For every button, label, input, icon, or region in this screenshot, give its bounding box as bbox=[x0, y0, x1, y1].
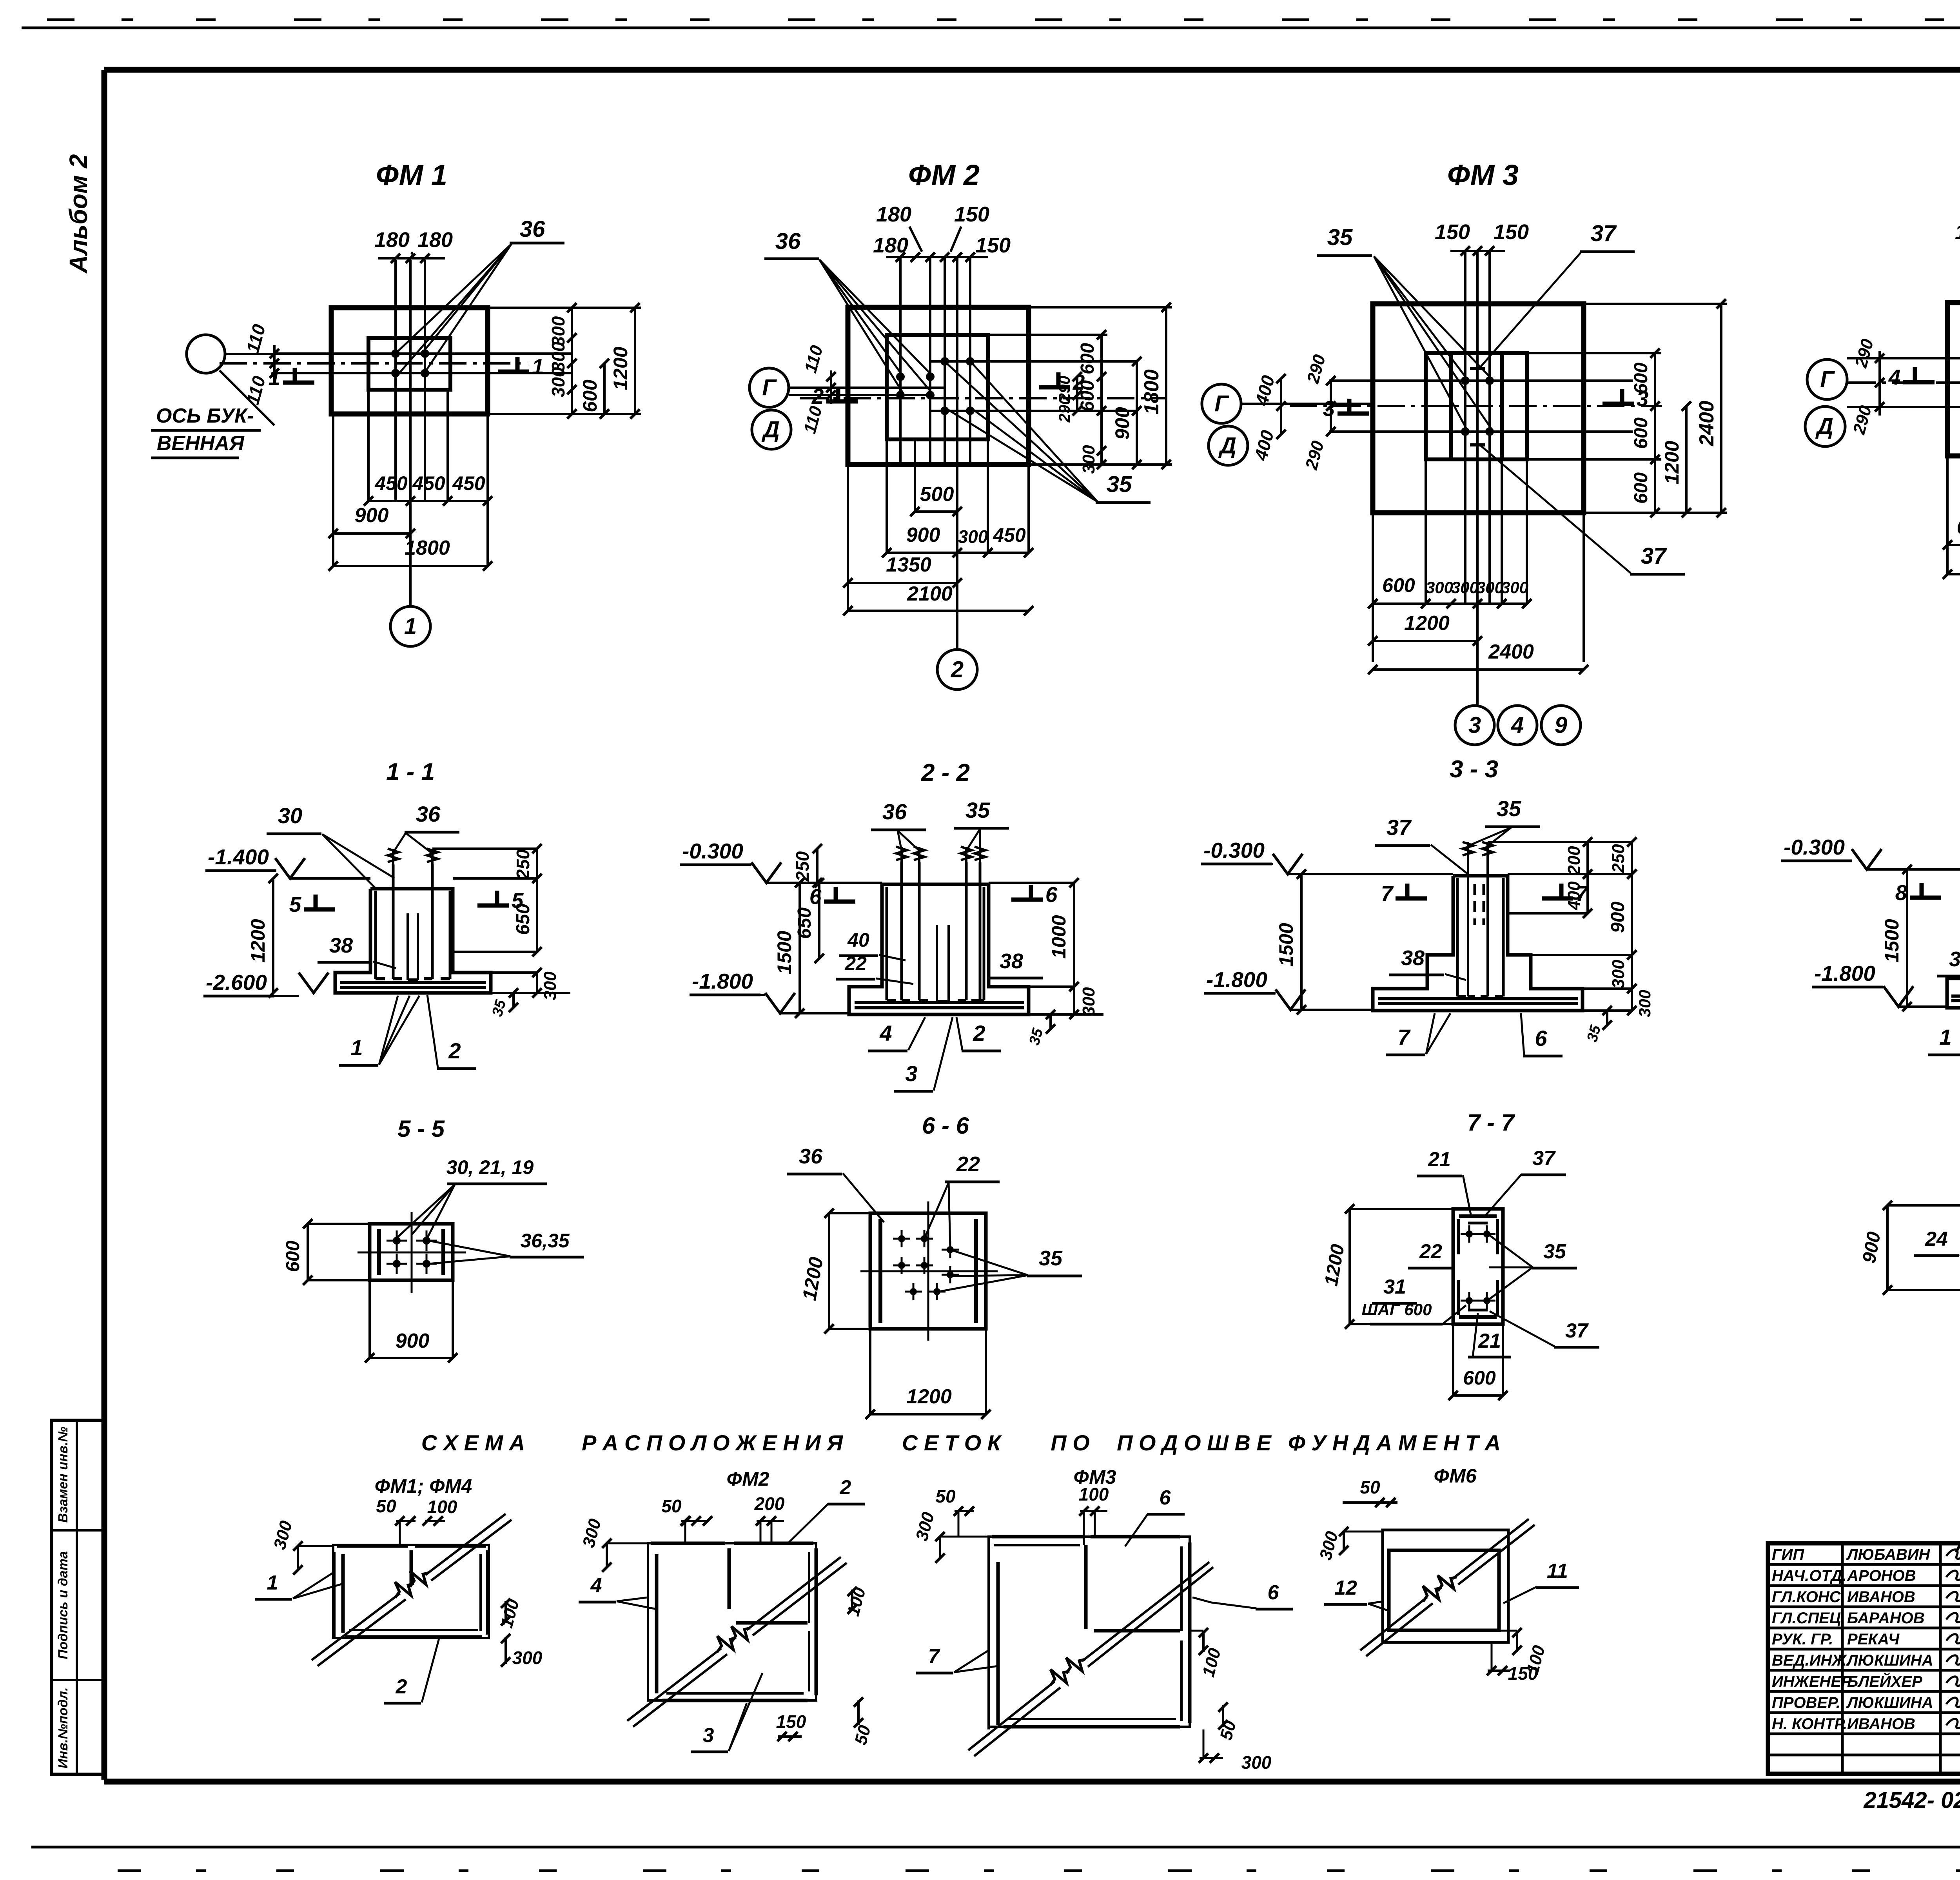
svg-text:5: 5 bbox=[512, 888, 524, 913]
svg-text:31: 31 bbox=[1383, 1276, 1406, 1298]
svg-text:2: 2 bbox=[811, 384, 824, 408]
svg-text:1000: 1000 bbox=[1048, 915, 1070, 958]
svg-text:1 - 1: 1 - 1 bbox=[386, 759, 435, 786]
svg-text:6 - 6: 6 - 6 bbox=[922, 1112, 969, 1139]
svg-text:-0.300: -0.300 bbox=[1784, 835, 1845, 859]
svg-text:300: 300 bbox=[1476, 578, 1504, 597]
svg-text:2400: 2400 bbox=[1695, 401, 1718, 446]
svg-text:37: 37 bbox=[1532, 1147, 1556, 1170]
svg-text:500: 500 bbox=[920, 483, 954, 506]
svg-text:36: 36 bbox=[799, 1145, 823, 1168]
svg-text:22: 22 bbox=[844, 953, 867, 974]
svg-text:30, 21, 19: 30, 21, 19 bbox=[446, 1156, 534, 1178]
svg-text:12: 12 bbox=[1334, 1577, 1357, 1599]
svg-text:2: 2 bbox=[973, 1021, 985, 1045]
svg-text:1: 1 bbox=[404, 614, 417, 639]
svg-text:50: 50 bbox=[661, 1496, 682, 1516]
svg-text:35: 35 bbox=[965, 798, 990, 822]
svg-text:100: 100 bbox=[427, 1497, 457, 1517]
svg-text:-0.300: -0.300 bbox=[682, 839, 743, 863]
svg-text:450: 450 bbox=[374, 472, 408, 494]
svg-text:300: 300 bbox=[1609, 960, 1628, 989]
svg-text:100: 100 bbox=[1079, 1484, 1109, 1504]
svg-text:600: 600 bbox=[1631, 472, 1651, 504]
svg-text:2: 2 bbox=[448, 1038, 461, 1063]
svg-text:РУК. ГР.: РУК. ГР. bbox=[1772, 1631, 1833, 1648]
svg-text:36: 36 bbox=[775, 229, 801, 254]
svg-text:1800: 1800 bbox=[1140, 369, 1163, 415]
svg-text:1350: 1350 bbox=[886, 553, 931, 576]
svg-text:ЛЮКШИНА: ЛЮКШИНА bbox=[1846, 1694, 1933, 1711]
svg-text:ИВАНОВ: ИВАНОВ bbox=[1847, 1715, 1915, 1733]
svg-text:ГЛ.СПЕЦ.: ГЛ.СПЕЦ. bbox=[1772, 1610, 1845, 1627]
svg-text:1500: 1500 bbox=[1275, 923, 1297, 966]
svg-text:600: 600 bbox=[1957, 516, 1960, 539]
svg-text:-1.400: -1.400 bbox=[208, 845, 269, 869]
svg-text:-1.800: -1.800 bbox=[1206, 967, 1267, 992]
svg-text:900: 900 bbox=[1111, 407, 1133, 440]
svg-text:900: 900 bbox=[906, 524, 940, 546]
svg-text:7: 7 bbox=[1397, 1025, 1411, 1049]
svg-text:ГЛ.КОНС.: ГЛ.КОНС. bbox=[1772, 1588, 1845, 1606]
svg-text:300: 300 bbox=[958, 526, 988, 547]
svg-text:150: 150 bbox=[776, 1711, 806, 1732]
svg-text:600: 600 bbox=[1463, 1367, 1496, 1389]
svg-text:150: 150 bbox=[975, 234, 1011, 257]
svg-text:Г: Г bbox=[762, 375, 777, 401]
svg-text:11: 11 bbox=[1547, 1560, 1568, 1582]
svg-text:290: 290 bbox=[1056, 396, 1073, 423]
svg-text:30: 30 bbox=[278, 803, 302, 828]
svg-text:Инв.№подл.: Инв.№подл. bbox=[56, 1687, 71, 1768]
svg-text:-2.600: -2.600 bbox=[206, 970, 267, 994]
svg-text:1: 1 bbox=[1939, 1025, 1951, 1049]
svg-text:ФМ6: ФМ6 bbox=[1434, 1465, 1477, 1487]
svg-text:2 - 2: 2 - 2 bbox=[921, 759, 970, 786]
svg-text:5 - 5: 5 - 5 bbox=[397, 1116, 445, 1142]
svg-text:ФМ2: ФМ2 bbox=[726, 1468, 769, 1490]
svg-text:Взамен инв.№: Взамен инв.№ bbox=[56, 1426, 71, 1523]
svg-text:3: 3 bbox=[905, 1061, 917, 1086]
svg-text:,: , bbox=[410, 240, 414, 258]
svg-text:6: 6 bbox=[1535, 1026, 1547, 1051]
svg-text:2: 2 bbox=[840, 1476, 851, 1499]
svg-text:38: 38 bbox=[1949, 947, 1960, 971]
svg-text:180: 180 bbox=[873, 234, 908, 257]
svg-text:36: 36 bbox=[520, 216, 545, 242]
svg-text:600: 600 bbox=[283, 1241, 303, 1272]
svg-text:-1.800: -1.800 bbox=[692, 969, 753, 993]
svg-text:3 - 3: 3 - 3 bbox=[1450, 756, 1498, 783]
svg-text:50: 50 bbox=[376, 1496, 396, 1516]
svg-text:Д: Д bbox=[761, 417, 780, 443]
svg-text:ФМ1; ФМ4: ФМ1; ФМ4 bbox=[375, 1475, 472, 1497]
svg-text:ГИП: ГИП bbox=[1772, 1546, 1804, 1563]
svg-text:ОСЬ БУК-: ОСЬ БУК- bbox=[156, 405, 254, 427]
svg-text:35: 35 bbox=[1497, 796, 1521, 821]
svg-text:35: 35 bbox=[1107, 472, 1132, 497]
svg-text:150: 150 bbox=[1955, 220, 1960, 244]
svg-text:П О: П О bbox=[1051, 1430, 1089, 1455]
svg-text:600: 600 bbox=[1631, 363, 1651, 394]
svg-text:180: 180 bbox=[374, 228, 410, 252]
svg-text:300: 300 bbox=[1501, 578, 1528, 597]
svg-text:Г: Г bbox=[1214, 391, 1229, 417]
svg-text:6: 6 bbox=[809, 884, 822, 909]
svg-text:Д: Д bbox=[1218, 433, 1236, 459]
svg-text:ПРОВЕР.: ПРОВЕР. bbox=[1772, 1694, 1840, 1711]
svg-text:7: 7 bbox=[928, 1645, 940, 1668]
svg-text:2100: 2100 bbox=[907, 583, 953, 605]
svg-text:РЕКАЧ: РЕКАЧ bbox=[1847, 1631, 1900, 1648]
svg-text:600: 600 bbox=[1077, 380, 1098, 412]
svg-text:38: 38 bbox=[1401, 946, 1425, 970]
svg-text:150: 150 bbox=[1435, 220, 1470, 244]
svg-text:300: 300 bbox=[512, 1648, 543, 1668]
svg-text:1: 1 bbox=[269, 365, 281, 390]
svg-text:НАЧ.ОТД.: НАЧ.ОТД. bbox=[1772, 1567, 1847, 1584]
svg-text:Н. КОНТР.: Н. КОНТР. bbox=[1772, 1715, 1847, 1733]
svg-text:9: 9 bbox=[1555, 713, 1567, 738]
svg-text:150: 150 bbox=[1508, 1663, 1538, 1684]
svg-text:БЛЕЙХЕР: БЛЕЙХЕР bbox=[1847, 1672, 1922, 1690]
svg-text:180: 180 bbox=[417, 228, 453, 252]
svg-text:21: 21 bbox=[1428, 1148, 1451, 1171]
svg-text:450: 450 bbox=[993, 524, 1026, 546]
svg-text:6: 6 bbox=[1160, 1486, 1171, 1509]
svg-text:22: 22 bbox=[1419, 1240, 1442, 1263]
svg-text:4: 4 bbox=[590, 1574, 602, 1597]
svg-text:300: 300 bbox=[1635, 990, 1654, 1017]
svg-text:450: 450 bbox=[412, 472, 445, 494]
svg-text:1: 1 bbox=[532, 354, 544, 379]
svg-text:36: 36 bbox=[416, 802, 441, 826]
svg-text:-1.800: -1.800 bbox=[1814, 961, 1875, 985]
svg-text:ФМ 1: ФМ 1 bbox=[376, 159, 447, 191]
svg-text:300: 300 bbox=[1241, 1752, 1272, 1773]
svg-text:35: 35 bbox=[1543, 1240, 1566, 1263]
svg-text:300: 300 bbox=[1451, 578, 1479, 597]
svg-text:1200: 1200 bbox=[906, 1385, 952, 1408]
svg-text:1200: 1200 bbox=[610, 347, 632, 390]
svg-text:5: 5 bbox=[289, 892, 302, 916]
svg-text:600: 600 bbox=[579, 379, 601, 412]
svg-text:600: 600 bbox=[1382, 574, 1415, 596]
svg-text:900: 900 bbox=[396, 1330, 430, 1352]
svg-text:900: 900 bbox=[355, 504, 389, 527]
svg-text:3: 3 bbox=[1468, 713, 1481, 738]
svg-text:3: 3 bbox=[703, 1724, 714, 1747]
svg-text:-0.300: -0.300 bbox=[1203, 838, 1265, 862]
svg-text:600: 600 bbox=[1077, 343, 1098, 374]
svg-text:250: 250 bbox=[513, 849, 533, 880]
svg-text:200: 200 bbox=[1564, 846, 1584, 875]
svg-text:300: 300 bbox=[541, 971, 560, 1000]
svg-text:С Х Е М А: С Х Е М А bbox=[421, 1430, 525, 1455]
svg-text:2: 2 bbox=[396, 1675, 407, 1698]
svg-text:250: 250 bbox=[1609, 844, 1628, 873]
svg-text:37: 37 bbox=[1641, 543, 1667, 569]
svg-text:7 - 7: 7 - 7 bbox=[1467, 1109, 1515, 1136]
svg-text:4: 4 bbox=[1888, 365, 1901, 389]
svg-text:21542- 02: 21542- 02 bbox=[1863, 1787, 1960, 1813]
svg-text:37: 37 bbox=[1387, 815, 1412, 840]
svg-text:600: 600 bbox=[1631, 417, 1651, 449]
svg-text:250: 250 bbox=[792, 851, 813, 882]
svg-text:2400: 2400 bbox=[1488, 641, 1534, 663]
svg-text:900: 900 bbox=[1608, 902, 1628, 933]
svg-text:35: 35 bbox=[1039, 1247, 1063, 1270]
svg-text:Подпись и дата: Подпись и дата bbox=[56, 1551, 71, 1659]
svg-text:35: 35 bbox=[1327, 225, 1353, 250]
svg-text:36: 36 bbox=[882, 799, 907, 824]
svg-text:1500: 1500 bbox=[1881, 919, 1903, 962]
svg-text:50: 50 bbox=[935, 1486, 956, 1506]
svg-text:6: 6 bbox=[1268, 1581, 1279, 1604]
svg-text:1200: 1200 bbox=[247, 919, 269, 962]
svg-text:1500: 1500 bbox=[773, 931, 795, 974]
svg-text:8: 8 bbox=[1895, 880, 1907, 905]
svg-text:150: 150 bbox=[954, 203, 989, 226]
svg-text:37: 37 bbox=[1591, 221, 1617, 246]
svg-text:С Е Т О К: С Е Т О К bbox=[902, 1430, 1002, 1455]
svg-text:БАРАНОВ: БАРАНОВ bbox=[1847, 1610, 1925, 1627]
svg-text:АРОНОВ: АРОНОВ bbox=[1847, 1567, 1916, 1584]
svg-text:ЛЮКШИНА: ЛЮКШИНА bbox=[1846, 1652, 1933, 1669]
svg-text:1800: 1800 bbox=[405, 537, 450, 559]
svg-text:180: 180 bbox=[876, 203, 911, 226]
svg-text:450: 450 bbox=[452, 472, 485, 494]
svg-text:21: 21 bbox=[1478, 1330, 1501, 1352]
svg-text:50: 50 bbox=[1360, 1477, 1380, 1497]
svg-text:ИНЖЕНЕР: ИНЖЕНЕР bbox=[1772, 1673, 1852, 1690]
svg-text:ИВАНОВ: ИВАНОВ bbox=[1847, 1588, 1915, 1606]
svg-text:22: 22 bbox=[956, 1152, 980, 1176]
svg-text:ФМ 2: ФМ 2 bbox=[908, 159, 980, 191]
svg-text:300: 300 bbox=[548, 367, 568, 397]
svg-text:1: 1 bbox=[267, 1572, 278, 1594]
svg-text:7: 7 bbox=[1381, 881, 1394, 906]
svg-text:ШАГ 600: ШАГ 600 bbox=[1362, 1300, 1432, 1319]
svg-text:Р А С П О Л О Ж Е Н И Я: Р А С П О Л О Ж Е Н И Я bbox=[582, 1430, 843, 1455]
svg-text:40: 40 bbox=[847, 929, 869, 951]
svg-text:38: 38 bbox=[329, 934, 353, 957]
svg-text:Д: Д bbox=[1815, 414, 1833, 439]
svg-text:650: 650 bbox=[794, 907, 815, 939]
svg-text:Ф У Н Д А М Е Н Т А: Ф У Н Д А М Е Н Т А bbox=[1288, 1430, 1501, 1455]
svg-text:3: 3 bbox=[1323, 396, 1335, 421]
svg-text:6: 6 bbox=[1045, 882, 1058, 907]
svg-text:2: 2 bbox=[951, 657, 964, 682]
svg-text:ФМ 3: ФМ 3 bbox=[1447, 159, 1519, 191]
svg-text:ВЕННАЯ: ВЕННАЯ bbox=[157, 432, 245, 455]
svg-text:1200: 1200 bbox=[1404, 612, 1450, 635]
svg-text:1200: 1200 bbox=[1661, 441, 1683, 484]
svg-text:ЛЮБАВИН: ЛЮБАВИН bbox=[1846, 1546, 1931, 1563]
svg-text:300: 300 bbox=[1079, 445, 1098, 474]
svg-text:4: 4 bbox=[879, 1021, 892, 1045]
svg-text:200: 200 bbox=[754, 1493, 785, 1514]
svg-text:400: 400 bbox=[1564, 881, 1584, 911]
svg-text:300: 300 bbox=[1079, 987, 1098, 1016]
svg-text:П О Д О Ш В Е: П О Д О Ш В Е bbox=[1117, 1430, 1272, 1455]
svg-text:Альбом 2: Альбом 2 bbox=[64, 154, 93, 274]
svg-text:38: 38 bbox=[1000, 949, 1023, 973]
svg-text:150: 150 bbox=[1494, 220, 1529, 244]
svg-text:36,35: 36,35 bbox=[520, 1230, 570, 1252]
svg-text:24: 24 bbox=[1925, 1228, 1948, 1250]
svg-text:37: 37 bbox=[1565, 1319, 1589, 1342]
svg-text:Г: Г bbox=[1820, 367, 1835, 392]
svg-text:300: 300 bbox=[1426, 578, 1453, 597]
svg-text:ВЕД.ИНЖ.: ВЕД.ИНЖ. bbox=[1772, 1652, 1851, 1669]
svg-text:4: 4 bbox=[1511, 713, 1524, 738]
svg-text:1: 1 bbox=[350, 1035, 363, 1060]
